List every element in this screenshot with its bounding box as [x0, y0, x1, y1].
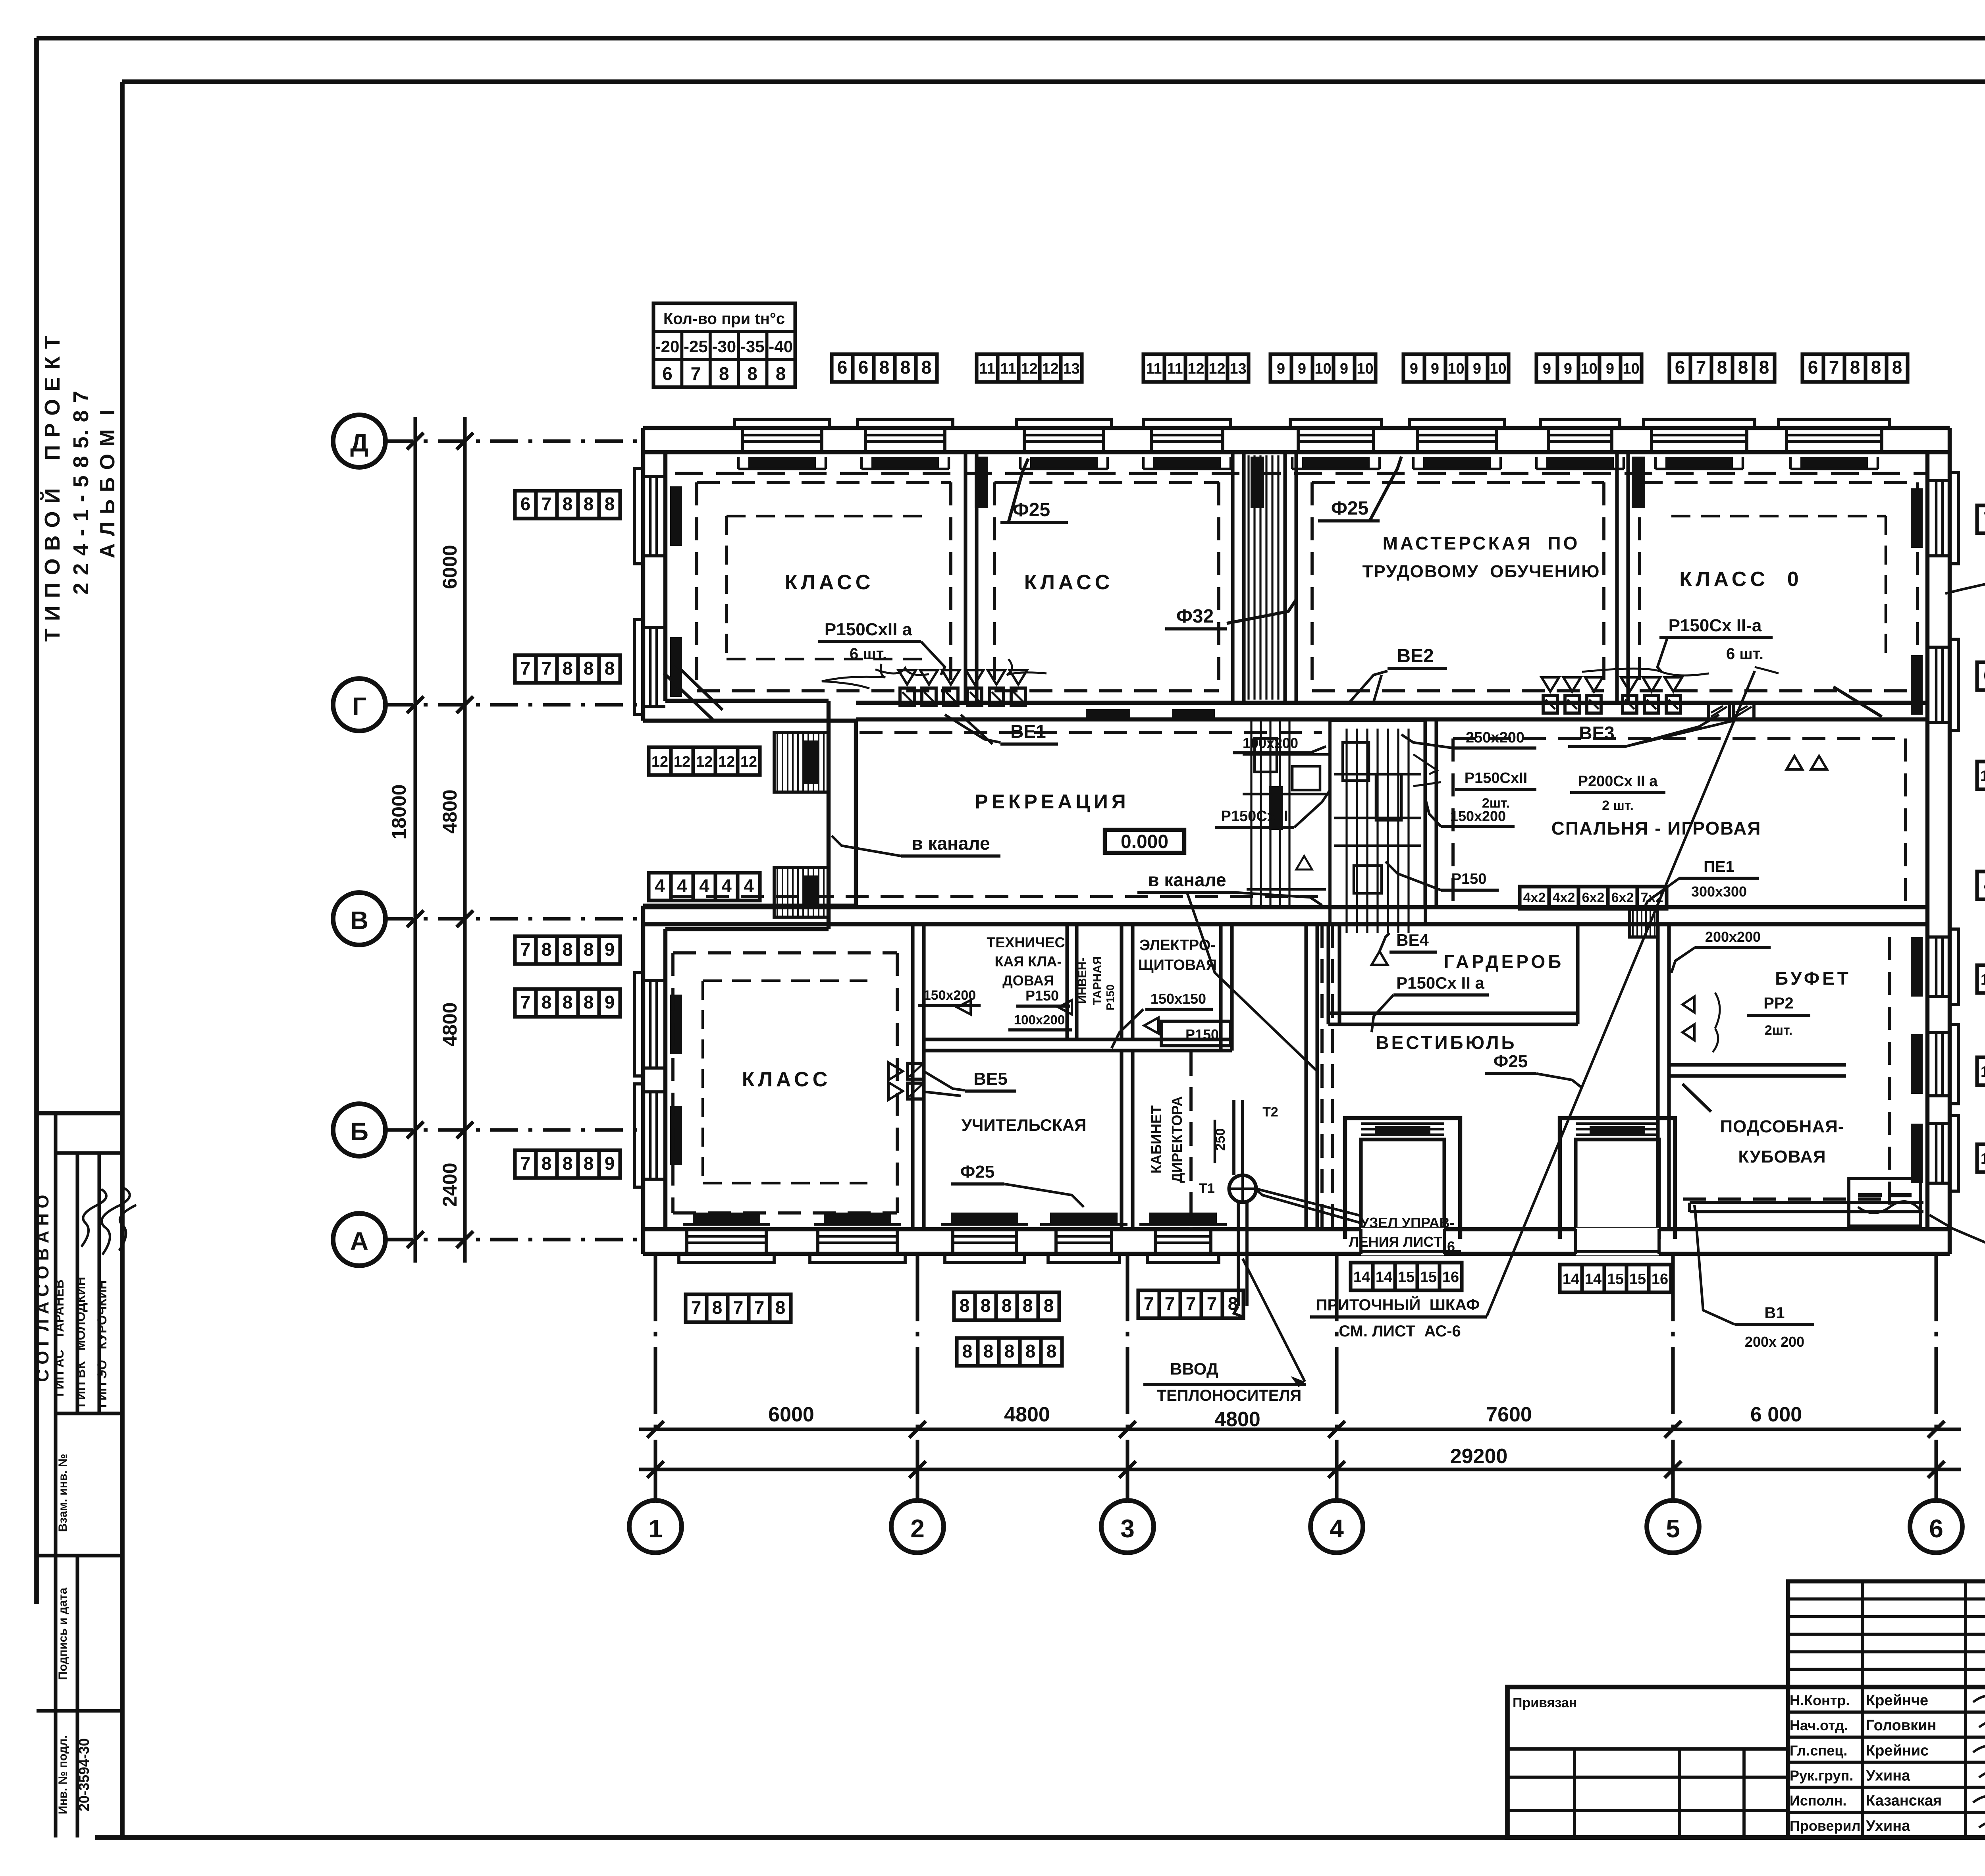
svg-text:4800: 4800: [1214, 1408, 1260, 1431]
svg-text:-30: -30: [712, 337, 736, 356]
svg-text:Нач.отд.: Нач.отд.: [1790, 1717, 1848, 1733]
svg-text:8: 8: [775, 1297, 786, 1318]
svg-text:11: 11: [1981, 972, 1985, 988]
svg-text:7: 7: [691, 363, 701, 384]
svg-text:8: 8: [1002, 1295, 1012, 1316]
svg-text:8: 8: [960, 1295, 970, 1316]
svg-text:9: 9: [1410, 361, 1418, 377]
svg-text:7600: 7600: [1486, 1403, 1532, 1426]
svg-text:ВЕ5: ВЕ5: [973, 1069, 1008, 1089]
svg-text:КЛАСС: КЛАСС: [785, 571, 874, 594]
svg-text:6: 6: [858, 357, 869, 378]
svg-text:4: 4: [744, 875, 754, 896]
svg-text:Ухина: Ухина: [1866, 1818, 1910, 1834]
svg-text:ПРИТОЧНЫЙ ШКАФ: ПРИТОЧНЫЙ ШКАФ: [1316, 1296, 1480, 1314]
svg-text:10: 10: [1447, 361, 1464, 377]
svg-text:6: 6: [520, 494, 531, 514]
svg-text:ТРУДОВОМУ ОБУЧЕНИЮ: ТРУДОВОМУ ОБУЧЕНИЮ: [1363, 562, 1600, 581]
svg-text:16: 16: [1652, 1271, 1668, 1288]
svg-text:А Л Ь Б О М I: А Л Ь Б О М I: [96, 409, 119, 558]
svg-text:в канале: в канале: [912, 833, 990, 854]
svg-text:7: 7: [733, 1297, 744, 1318]
svg-text:0.000: 0.000: [1121, 831, 1168, 852]
svg-text:100х200: 100х200: [1243, 735, 1298, 751]
svg-text:13: 13: [1063, 361, 1079, 377]
svg-text:6: 6: [1983, 665, 1985, 686]
svg-text:250х200: 250х200: [1466, 729, 1524, 746]
svg-text:12: 12: [740, 754, 757, 770]
svg-text:8: 8: [1044, 1295, 1054, 1316]
svg-text:10: 10: [1580, 361, 1597, 377]
svg-text:200х 200: 200х 200: [1745, 1334, 1804, 1350]
svg-text:4: 4: [1983, 874, 1985, 895]
svg-text:4х2: 4х2: [1553, 890, 1575, 905]
svg-text:7: 7: [1165, 1293, 1175, 1314]
svg-text:Кол-во при tн°с: Кол-во при tн°с: [663, 310, 785, 328]
svg-text:Инв. № подл.: Инв. № подл.: [56, 1735, 69, 1814]
svg-text:11: 11: [1981, 1064, 1985, 1080]
svg-text:Р150Сх II-а: Р150Сх II-а: [1669, 616, 1762, 635]
svg-text:8: 8: [1025, 1341, 1036, 1361]
svg-text:2 шт.: 2 шт.: [1602, 798, 1634, 813]
svg-text:ИНВЕН-: ИНВЕН-: [1076, 958, 1089, 1004]
svg-text:7: 7: [1829, 357, 1839, 378]
svg-text:9: 9: [1543, 361, 1551, 377]
svg-text:Рук.груп.: Рук.груп.: [1790, 1768, 1853, 1784]
svg-text:8: 8: [1717, 357, 1727, 378]
svg-text:4800: 4800: [439, 1002, 461, 1046]
svg-text:ГИП ЭО КУРОЧКИН: ГИП ЭО КУРОЧКИН: [95, 1280, 109, 1408]
svg-text:Р150СхII а: Р150СхII а: [825, 620, 912, 639]
svg-text:7: 7: [754, 1297, 765, 1318]
svg-text:8: 8: [542, 1153, 552, 1174]
svg-text:200х200: 200х200: [1705, 929, 1761, 945]
svg-text:8: 8: [563, 992, 573, 1012]
svg-text:Ухина: Ухина: [1866, 1768, 1910, 1784]
svg-text:14: 14: [1563, 1271, 1579, 1288]
svg-text:КАБИНЕТ: КАБИНЕТ: [1148, 1105, 1164, 1174]
svg-text:10: 10: [1623, 361, 1639, 377]
svg-text:ДИРЕКТОРА: ДИРЕКТОРА: [1169, 1096, 1185, 1183]
svg-text:ГАРДЕРОБ: ГАРДЕРОБ: [1444, 951, 1564, 972]
svg-text:4: 4: [655, 875, 665, 896]
svg-text:8: 8: [563, 1153, 573, 1174]
svg-text:БУФЕТ: БУФЕТ: [1775, 968, 1851, 989]
svg-text:16: 16: [1442, 1269, 1459, 1286]
svg-text:12: 12: [651, 754, 668, 770]
svg-text:Крейнис: Крейнис: [1866, 1742, 1929, 1759]
svg-text:6: 6: [1675, 357, 1685, 378]
svg-text:ВВОД: ВВОД: [1170, 1359, 1218, 1378]
svg-text:7: 7: [542, 494, 552, 514]
svg-text:11: 11: [1981, 1151, 1985, 1167]
svg-text:7: 7: [1983, 508, 1985, 529]
svg-text:9: 9: [1564, 361, 1572, 377]
svg-text:15: 15: [1420, 1269, 1437, 1286]
svg-text:В: В: [350, 906, 368, 935]
svg-text:ЩИТОВАЯ: ЩИТОВАЯ: [1138, 957, 1217, 974]
svg-text:12: 12: [696, 754, 713, 770]
svg-text:9: 9: [605, 1153, 615, 1174]
svg-text:УЧИТЕЛЬСКАЯ: УЧИТЕЛЬСКАЯ: [962, 1116, 1087, 1134]
svg-text:7: 7: [691, 1297, 701, 1318]
svg-text:9: 9: [1431, 361, 1439, 377]
svg-text:2 2 4 - 1 - 5 8 5. 8 7: 2 2 4 - 1 - 5 8 5. 8 7: [69, 390, 93, 594]
svg-text:9: 9: [1298, 361, 1306, 377]
svg-text:Ф25: Ф25: [1331, 498, 1368, 519]
svg-text:Привязан: Привязан: [1513, 1695, 1577, 1710]
svg-text:Р200Сх II а: Р200Сх II а: [1578, 773, 1658, 790]
svg-text:Ф32: Ф32: [1176, 606, 1214, 627]
svg-text:6 000: 6 000: [1750, 1403, 1802, 1426]
svg-text:4: 4: [677, 875, 687, 896]
svg-text:7: 7: [520, 1153, 531, 1174]
svg-text:13: 13: [1230, 361, 1246, 377]
svg-text:8: 8: [921, 357, 932, 378]
svg-text:10: 10: [1357, 361, 1373, 377]
svg-text:2шт.: 2шт.: [1765, 1023, 1792, 1038]
svg-text:КЛАСС 0: КЛАСС 0: [1679, 568, 1802, 591]
svg-text:ТАРНАЯ: ТАРНАЯ: [1091, 956, 1104, 1005]
svg-text:8: 8: [1892, 357, 1902, 378]
svg-text:10: 10: [1490, 361, 1506, 377]
svg-text:8: 8: [1871, 357, 1881, 378]
svg-text:-20: -20: [655, 337, 680, 356]
svg-text:Казанская: Казанская: [1866, 1793, 1942, 1809]
svg-text:В1: В1: [1764, 1304, 1785, 1322]
svg-text:8: 8: [584, 939, 594, 960]
svg-text:Ф25: Ф25: [1013, 499, 1050, 521]
svg-text:8: 8: [1738, 357, 1748, 378]
svg-text:6х2: 6х2: [1582, 890, 1605, 905]
svg-text:РЕКРЕАЦИЯ: РЕКРЕАЦИЯ: [975, 791, 1129, 813]
svg-text:Головкин: Головкин: [1866, 1717, 1936, 1734]
svg-text:-25: -25: [684, 337, 708, 356]
svg-text:КУБОВАЯ: КУБОВАЯ: [1738, 1147, 1826, 1166]
svg-text:8: 8: [605, 494, 615, 514]
svg-text:12: 12: [1021, 361, 1037, 377]
svg-text:СМ. ЛИСТ АС-6: СМ. ЛИСТ АС-6: [1339, 1323, 1461, 1340]
svg-text:Г: Г: [352, 692, 366, 721]
svg-text:7: 7: [520, 658, 531, 679]
svg-text:12: 12: [718, 754, 735, 770]
svg-text:8: 8: [563, 658, 573, 679]
svg-text:6 шт.: 6 шт.: [1726, 645, 1763, 663]
svg-text:12: 12: [1208, 361, 1225, 377]
svg-text:8: 8: [605, 658, 615, 679]
svg-text:Исполн.: Исполн.: [1790, 1793, 1846, 1809]
svg-text:Ф25: Ф25: [960, 1162, 995, 1182]
svg-text:Д: Д: [350, 428, 368, 457]
svg-text:Б: Б: [350, 1117, 368, 1146]
svg-text:8: 8: [1759, 357, 1769, 378]
svg-text:6: 6: [662, 363, 673, 384]
svg-text:Н.Контр.: Н.Контр.: [1790, 1692, 1850, 1708]
svg-text:15: 15: [1607, 1271, 1624, 1288]
svg-text:ГИП АС ТАРАНЕВ: ГИП АС ТАРАНЕВ: [52, 1280, 66, 1397]
svg-text:150х200: 150х200: [1450, 808, 1506, 824]
svg-text:Р150СхII: Р150СхII: [1465, 770, 1527, 787]
svg-text:Р150: Р150: [1025, 987, 1059, 1004]
svg-text:Гл.спец.: Гл.спец.: [1790, 1742, 1847, 1758]
svg-text:7: 7: [1696, 357, 1706, 378]
svg-text:А: А: [350, 1227, 368, 1255]
svg-text:Р150Сх II а: Р150Сх II а: [1396, 974, 1484, 992]
svg-text:ТЕПЛОНОСИТЕЛЯ: ТЕПЛОНОСИТЕЛЯ: [1157, 1387, 1302, 1404]
svg-text:СПАЛЬНЯ - ИГРОВАЯ: СПАЛЬНЯ - ИГРОВАЯ: [1551, 818, 1761, 839]
svg-text:14: 14: [1353, 1269, 1370, 1286]
svg-text:9: 9: [605, 939, 615, 960]
svg-text:ВЕ1: ВЕ1: [1010, 721, 1046, 742]
svg-text:КЛАСС: КЛАСС: [1024, 571, 1114, 594]
svg-text:11: 11: [979, 361, 995, 377]
svg-text:ДОВАЯ: ДОВАЯ: [1002, 972, 1054, 989]
svg-text:6: 6: [1929, 1514, 1943, 1543]
svg-text:4: 4: [1330, 1514, 1344, 1543]
svg-text:Проверил: Проверил: [1790, 1818, 1861, 1834]
svg-text:Т И П О В О Й П Р О Е К Т: Т И П О В О Й П Р О Е К Т: [40, 335, 64, 642]
svg-text:8: 8: [962, 1341, 973, 1361]
svg-text:ТЕХНИЧЕС-: ТЕХНИЧЕС-: [987, 934, 1070, 951]
svg-text:14: 14: [1585, 1271, 1601, 1288]
svg-text:8: 8: [563, 494, 573, 514]
svg-text:7: 7: [1144, 1293, 1154, 1314]
svg-text:15: 15: [1398, 1269, 1415, 1286]
svg-text:4800: 4800: [439, 789, 461, 833]
svg-text:11: 11: [1146, 361, 1162, 377]
svg-text:УЗЕЛ УПРАВ-: УЗЕЛ УПРАВ-: [1360, 1215, 1454, 1231]
svg-text:6000: 6000: [768, 1403, 814, 1426]
svg-text:Р150: Р150: [1104, 984, 1116, 1010]
svg-text:7: 7: [1207, 1293, 1217, 1314]
svg-text:КЛАСС: КЛАСС: [742, 1068, 831, 1091]
svg-text:8: 8: [1023, 1295, 1033, 1316]
svg-text:6х2: 6х2: [1611, 890, 1634, 905]
svg-text:РР2: РР2: [1763, 995, 1794, 1012]
svg-text:2400: 2400: [439, 1163, 461, 1207]
svg-text:6000: 6000: [439, 545, 461, 589]
svg-text:ВЕ3: ВЕ3: [1579, 723, 1614, 743]
svg-text:9: 9: [1340, 361, 1348, 377]
svg-text:3: 3: [1120, 1514, 1135, 1543]
svg-text:в канале: в канале: [1148, 870, 1226, 890]
svg-text:8: 8: [983, 1341, 994, 1361]
svg-text:ВЕ2: ВЕ2: [1397, 646, 1434, 667]
svg-text:Крейнче: Крейнче: [1866, 1692, 1928, 1709]
svg-text:9: 9: [1277, 361, 1285, 377]
svg-text:Взам. инв. №: Взам. инв. №: [56, 1454, 69, 1532]
svg-text:Р150Сх II: Р150Сх II: [1221, 808, 1288, 825]
svg-text:ВЕ4: ВЕ4: [1396, 931, 1429, 949]
svg-text:8: 8: [1046, 1341, 1057, 1361]
svg-text:11: 11: [1167, 361, 1183, 377]
svg-text:ГИП ВК МОЛОДКИН: ГИП ВК МОЛОДКИН: [73, 1277, 88, 1407]
svg-text:8: 8: [542, 992, 552, 1012]
svg-text:8: 8: [1004, 1341, 1015, 1361]
svg-text:Р150: Р150: [1185, 1026, 1219, 1043]
svg-text:8: 8: [563, 939, 573, 960]
svg-text:Р150: Р150: [1451, 871, 1487, 887]
svg-text:6: 6: [837, 357, 848, 378]
svg-text:6: 6: [1808, 357, 1818, 378]
svg-text:8: 8: [542, 939, 552, 960]
svg-text:11: 11: [1000, 361, 1016, 377]
svg-text:8: 8: [981, 1295, 991, 1316]
svg-text:8: 8: [584, 1153, 594, 1174]
svg-text:12: 12: [1187, 361, 1204, 377]
svg-text:8: 8: [1850, 357, 1860, 378]
svg-text:1: 1: [648, 1514, 663, 1543]
svg-text:4х2: 4х2: [1523, 890, 1546, 905]
svg-text:300х300: 300х300: [1691, 883, 1747, 900]
svg-text:4: 4: [699, 875, 709, 896]
svg-text:4: 4: [721, 875, 732, 896]
svg-text:12: 12: [1042, 361, 1058, 377]
svg-text:100х200: 100х200: [1014, 1012, 1065, 1027]
svg-text:7: 7: [520, 939, 531, 960]
svg-text:9: 9: [1473, 361, 1481, 377]
svg-text:10: 10: [1314, 361, 1331, 377]
svg-text:Ф25: Ф25: [1494, 1052, 1528, 1071]
svg-text:ПОДСОБНАЯ-: ПОДСОБНАЯ-: [1720, 1117, 1844, 1136]
svg-text:18000: 18000: [388, 784, 410, 839]
svg-text:12: 12: [674, 754, 690, 770]
svg-text:8: 8: [712, 1297, 723, 1318]
svg-text:8: 8: [900, 357, 911, 378]
svg-text:7: 7: [520, 992, 531, 1012]
svg-text:8: 8: [584, 658, 594, 679]
svg-text:14: 14: [1980, 768, 1985, 785]
svg-text:6 шт.: 6 шт.: [850, 645, 887, 663]
svg-text:МАСТЕРСКАЯ ПО: МАСТЕРСКАЯ ПО: [1383, 533, 1580, 553]
svg-text:8: 8: [584, 494, 594, 514]
svg-text:ВЕСТИБЮЛЬ: ВЕСТИБЮЛЬ: [1376, 1032, 1517, 1053]
svg-text:Т1: Т1: [1199, 1181, 1215, 1196]
svg-text:150х150: 150х150: [1151, 991, 1206, 1007]
svg-text:4800: 4800: [1004, 1403, 1050, 1426]
svg-text:8: 8: [879, 357, 890, 378]
svg-text:20-3594-30: 20-3594-30: [76, 1738, 92, 1811]
svg-text:14: 14: [1376, 1269, 1392, 1286]
svg-text:8: 8: [584, 992, 594, 1012]
svg-text:29200: 29200: [1450, 1445, 1508, 1468]
svg-text:Т2: Т2: [1262, 1105, 1278, 1120]
svg-text:ПЕ1: ПЕ1: [1704, 858, 1734, 875]
svg-text:2: 2: [910, 1514, 925, 1543]
svg-text:КАЯ КЛА-: КАЯ КЛА-: [994, 953, 1062, 970]
svg-text:9: 9: [605, 992, 615, 1012]
svg-text:8: 8: [776, 363, 786, 384]
svg-text:С О Г Л А С О В А Н О: С О Г Л А С О В А Н О: [33, 1195, 52, 1382]
svg-text:5: 5: [1666, 1514, 1680, 1543]
svg-text:-40: -40: [769, 337, 793, 356]
svg-text:8: 8: [747, 363, 757, 384]
svg-text:Подпись и дата: Подпись и дата: [56, 1587, 69, 1680]
svg-text:ЛЕНИЯ ЛИСТ: ЛЕНИЯ ЛИСТ: [1349, 1234, 1442, 1250]
svg-text:7: 7: [1186, 1293, 1196, 1314]
svg-text:15: 15: [1629, 1271, 1646, 1288]
svg-text:8: 8: [719, 363, 729, 384]
svg-text:7: 7: [542, 658, 552, 679]
svg-text:-35: -35: [740, 337, 765, 356]
svg-text:9: 9: [1606, 361, 1614, 377]
